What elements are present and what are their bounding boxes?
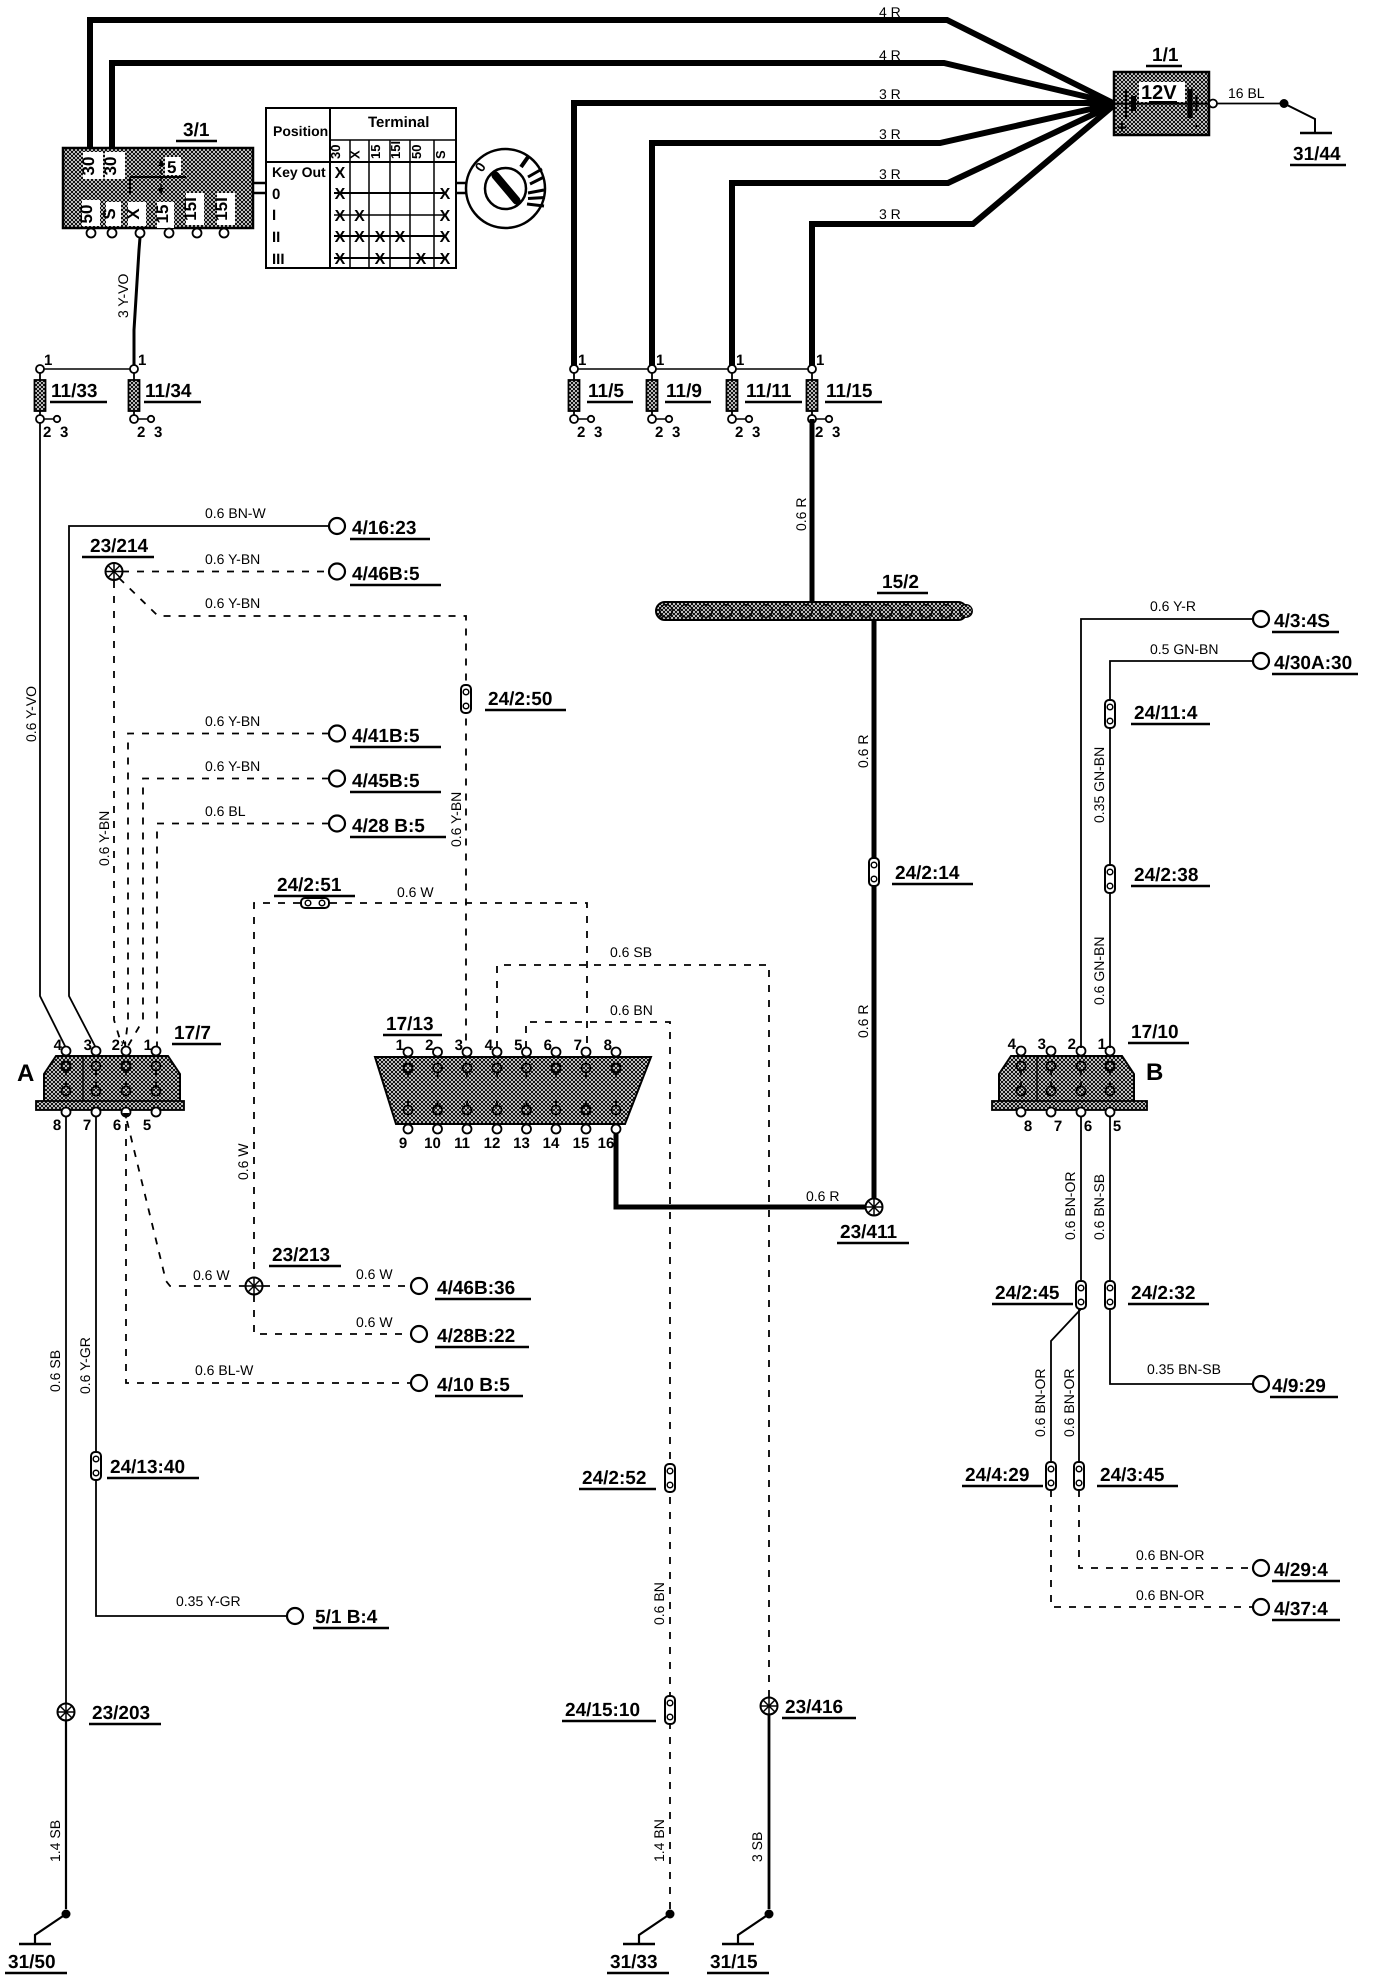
svg-text:4/3:4S: 4/3:4S (1274, 611, 1330, 632)
svg-text:23/416: 23/416 (785, 1697, 843, 1718)
svg-text:11/33: 11/33 (51, 381, 98, 402)
svg-text:0.6 Y-BN: 0.6 Y-BN (96, 811, 112, 866)
inline connector 24/2:32 (1105, 1281, 1209, 1309)
inline connector 24/13:40 (91, 1452, 199, 1480)
svg-text:24/2:51: 24/2:51 (277, 875, 342, 896)
svg-text:4/46B:36: 4/46B:36 (437, 1278, 515, 1299)
svg-text:11/34: 11/34 (145, 381, 192, 402)
svg-text:A: A (17, 1060, 34, 1087)
wire 0.6 R bus 15/2 down to splice 23/411 (855, 620, 874, 1207)
label 1/1 (1146, 45, 1182, 66)
svg-text:4/28B:22: 4/28B:22 (437, 1326, 515, 1347)
terminal 4/41B:5 (329, 726, 441, 748)
connector 17/7 A (17, 1037, 184, 1134)
svg-text:X: X (335, 165, 346, 182)
ignition key symbol (456, 149, 545, 228)
svg-text:0.6 Y-BN: 0.6 Y-BN (205, 551, 260, 567)
wire 0.6 Y-BN splice 23/214 to 4/46B:5 (122, 551, 329, 572)
svg-text:0.6 GN-BN: 0.6 GN-BN (1091, 937, 1107, 1005)
svg-text:10: 10 (424, 1135, 441, 1152)
svg-text:1: 1 (396, 1037, 404, 1054)
wire 0.6 SB 17/7 pin 8 to splice 23/203 (47, 1117, 66, 1703)
svg-text:5: 5 (514, 1037, 522, 1054)
svg-text:2: 2 (425, 1037, 433, 1054)
wire 0.6 W 24/2:51 to 17/13 pin 7 (330, 884, 587, 1048)
svg-text:Position: Position (273, 123, 328, 139)
wires 3/1 to position table (253, 182, 266, 185)
svg-text:3 R: 3 R (879, 166, 901, 182)
svg-text:24/2:52: 24/2:52 (582, 1468, 646, 1489)
svg-text:1.4 SB: 1.4 SB (47, 1820, 63, 1862)
svg-text:16: 16 (598, 1135, 615, 1152)
svg-text:X: X (335, 251, 346, 268)
battery 1/1 12V (1114, 72, 1209, 137)
svg-text:4: 4 (485, 1037, 494, 1054)
terminal 4/30A:30 (1253, 653, 1358, 674)
wire 0.6 BN 17/13 pin 5 to ground 31/33 (526, 1002, 670, 1909)
wire 1.4 SB splice 23/203 to ground 31/50 (47, 1721, 66, 1909)
terminal 4/37:4 (1253, 1599, 1340, 1620)
svg-text:6: 6 (1084, 1118, 1092, 1135)
label 15/2 (877, 572, 928, 593)
svg-text:0.35 GN-BN: 0.35 GN-BN (1091, 747, 1107, 823)
svg-text:0.6 SB: 0.6 SB (47, 1350, 63, 1392)
svg-text:4/16:23: 4/16:23 (352, 518, 416, 539)
svg-text:0.6 Y-VO: 0.6 Y-VO (23, 686, 39, 742)
svg-text:11/15: 11/15 (826, 381, 873, 402)
svg-text:12V: 12V (1141, 82, 1177, 104)
svg-text:4/10 B:5: 4/10 B:5 (437, 1375, 510, 1396)
label 17/10 (1128, 1022, 1189, 1043)
svg-text:0.6 BL-W: 0.6 BL-W (195, 1362, 254, 1378)
svg-text:0.35 Y-GR: 0.35 Y-GR (176, 1593, 241, 1609)
ignition position/terminal table (266, 108, 456, 268)
svg-text:4 R: 4 R (879, 4, 901, 20)
fuse 11/33 (35, 352, 108, 441)
svg-text:X: X (440, 208, 451, 225)
svg-text:0.6 W: 0.6 W (193, 1267, 230, 1283)
svg-text:0.6 SB: 0.6 SB (610, 944, 652, 960)
svg-text:3 R: 3 R (879, 86, 901, 102)
svg-text:S: S (100, 208, 119, 219)
svg-text:0.6 R: 0.6 R (806, 1188, 839, 1204)
svg-text:4/29:4: 4/29:4 (1274, 1560, 1328, 1581)
svg-text:11/11: 11/11 (746, 381, 792, 402)
connector 17/13 (375, 1037, 651, 1152)
svg-text:23/411: 23/411 (840, 1222, 897, 1243)
svg-text:4: 4 (54, 1037, 63, 1054)
wire GN-BN 17/10 pin 1 to 4/30A:30 (1091, 641, 1253, 1048)
label 17/13 (383, 1014, 442, 1035)
svg-text:15: 15 (153, 205, 172, 224)
svg-text:0.5 GN-BN: 0.5 GN-BN (1150, 641, 1218, 657)
svg-text:3 Y-VO: 3 Y-VO (115, 274, 131, 318)
svg-text:24/2:50: 24/2:50 (488, 689, 552, 710)
svg-text:5: 5 (1113, 1118, 1121, 1135)
svg-text:X: X (124, 208, 143, 220)
svg-text:16 BL: 16 BL (1228, 85, 1265, 101)
svg-text:11: 11 (454, 1135, 470, 1152)
svg-text:0.6 R: 0.6 R (855, 1005, 871, 1038)
svg-text:15: 15 (368, 145, 383, 159)
svg-text:X: X (395, 229, 406, 246)
svg-text:III: III (272, 251, 285, 268)
svg-text:8: 8 (604, 1037, 612, 1054)
svg-text:0.6 BN-OR: 0.6 BN-OR (1136, 1547, 1204, 1563)
svg-text:X: X (335, 208, 346, 225)
svg-text:0.6 R: 0.6 R (855, 735, 871, 768)
svg-text:11/5: 11/5 (588, 381, 624, 402)
wire 3R battery to fuse 11/5 (574, 86, 1113, 367)
wire 0.6 R fuse 11/15 to bus 15/2 (793, 419, 812, 602)
svg-text:15I: 15I (388, 141, 403, 159)
svg-text:24/15:10: 24/15:10 (565, 1700, 640, 1721)
connector 17/10 B (992, 1036, 1163, 1135)
terminal 4/46B:5 (329, 564, 441, 586)
wire Y-GR 17/7 pin 7 through 24/13:40 to 5/1 B:4 (77, 1117, 287, 1616)
label 17/7 (172, 1023, 221, 1044)
inline connector 24/2:51 (274, 875, 355, 908)
splice 23/203 (58, 1703, 162, 1724)
svg-text:4/9:29: 4/9:29 (1272, 1376, 1326, 1397)
svg-text:0.6 Y-BN: 0.6 Y-BN (448, 792, 464, 847)
wire 0.6 W splice 23/213 to 4/46B:36 (263, 1266, 411, 1286)
splice 23/213 (246, 1245, 342, 1295)
junction wedge at battery positive (1090, 94, 1114, 113)
svg-text:0.6 Y-BN: 0.6 Y-BN (205, 758, 260, 774)
svg-text:X: X (354, 229, 365, 246)
fuse 11/34 (129, 352, 202, 441)
wire 0.6 BN-OR 24/4:29 to 4/37:4 (1051, 1490, 1253, 1607)
wire 0.6 Y-BN 17/7 pin 2 to 4/41B:5 (125, 713, 329, 1046)
svg-text:X: X (416, 251, 427, 268)
ground 31/33 (607, 1910, 675, 1974)
svg-text:0.6 BN-SB: 0.6 BN-SB (1091, 1174, 1107, 1240)
svg-text:0.6 BN-OR: 0.6 BN-OR (1032, 1369, 1048, 1437)
svg-text:24/4:29: 24/4:29 (965, 1465, 1029, 1486)
wire 3 SB splice 23/416 to ground 31/15 (749, 1715, 769, 1909)
svg-text:30: 30 (79, 157, 98, 176)
wire 0.6 BL-W 17/7 pin 6 to 4/10 B:5 (126, 1124, 411, 1383)
terminal 4/29:4 (1253, 1560, 1340, 1581)
svg-text:13: 13 (513, 1135, 530, 1152)
svg-text:17/7: 17/7 (174, 1023, 211, 1044)
svg-text:0: 0 (272, 186, 280, 203)
svg-text:1: 1 (1098, 1036, 1106, 1053)
svg-text:Terminal: Terminal (368, 114, 429, 131)
svg-text:23/213: 23/213 (272, 1245, 330, 1266)
svg-text:24/2:38: 24/2:38 (1134, 865, 1198, 886)
svg-text:X: X (348, 150, 363, 159)
svg-text:3: 3 (84, 1037, 92, 1054)
wire 4R from 3/1 terminal 30 to battery (90, 4, 1113, 156)
svg-text:4/41B:5: 4/41B:5 (352, 726, 420, 747)
svg-text:24/2:45: 24/2:45 (995, 1283, 1060, 1304)
splice 23/411 (837, 1199, 909, 1244)
svg-text:4/28 B:5: 4/28 B:5 (352, 816, 425, 837)
svg-text:4/37:4: 4/37:4 (1274, 1599, 1328, 1620)
svg-text:0.35 BN-SB: 0.35 BN-SB (1147, 1361, 1221, 1377)
svg-text:S: S (433, 150, 448, 159)
svg-text:11/9: 11/9 (666, 381, 702, 402)
svg-text:15I: 15I (181, 197, 200, 221)
ground 31/44 (1280, 99, 1347, 165)
terminal 4/28 B:5 (329, 816, 446, 838)
svg-text:31/44: 31/44 (1293, 144, 1341, 165)
svg-text:0.6 Y-BN: 0.6 Y-BN (205, 595, 260, 611)
svg-text:4: 4 (1008, 1036, 1017, 1053)
svg-text:2: 2 (112, 1037, 120, 1054)
svg-text:0.6 W: 0.6 W (356, 1314, 393, 1330)
svg-text:31/15: 31/15 (710, 1952, 758, 1973)
inline connector 24/11:4 (1105, 700, 1210, 728)
svg-text:-: - (1195, 117, 1200, 134)
svg-text:0.6 BN-OR: 0.6 BN-OR (1062, 1172, 1078, 1240)
svg-text:4/46B:5: 4/46B:5 (352, 564, 420, 585)
svg-text:X: X (440, 229, 451, 246)
svg-text:30: 30 (101, 157, 120, 176)
wire 0.6 Y-BN 17/7 pin 2 to 4/45B:5 (128, 758, 329, 1046)
svg-text:24/11:4: 24/11:4 (1134, 703, 1198, 724)
wire 0.6 W splice 23/213 to 4/28B:22 (254, 1295, 411, 1334)
svg-text:+: + (1117, 118, 1127, 137)
svg-text:5: 5 (167, 158, 176, 177)
svg-text:X: X (354, 208, 365, 225)
terminal 5/1 B:4 (287, 1607, 389, 1628)
wire 0.6 R splice 23/411 to 17/13 pin 16 (616, 1129, 874, 1207)
terminal 4/16:23 (329, 518, 430, 539)
svg-text:24/13:40: 24/13:40 (110, 1457, 185, 1478)
fuse 11/11 (727, 352, 803, 441)
svg-text:I: I (272, 207, 276, 224)
ignition switch 3/1 (63, 148, 253, 238)
svg-text:15: 15 (573, 1135, 590, 1152)
svg-text:0.6 BN-OR: 0.6 BN-OR (1136, 1587, 1204, 1603)
wire 0.6 BL 17/7 pin 1 to 4/28 B:5 (157, 803, 329, 1048)
inline connector 24/2:52 (579, 1464, 675, 1492)
svg-text:24/2:14: 24/2:14 (895, 863, 960, 884)
svg-text:7: 7 (574, 1037, 582, 1054)
wire 0.6 W 17/7 pin 6 to splice 23/213 (127, 1121, 245, 1286)
svg-text:0.6 Y-R: 0.6 Y-R (1150, 598, 1196, 614)
terminal 4/45B:5 (329, 771, 441, 793)
terminal 4/28B:22 (411, 1326, 529, 1347)
svg-text:5: 5 (143, 1117, 151, 1134)
svg-text:0.6 BN: 0.6 BN (651, 1582, 667, 1625)
wire 0.6 BN-OR 24/2:45 to 24/3:45 (1061, 1309, 1079, 1462)
svg-text:0.6 W: 0.6 W (235, 1143, 251, 1180)
svg-text:6: 6 (113, 1117, 121, 1134)
wire 3 Y-VO from terminal X to fuse 11/34 (115, 238, 140, 370)
svg-text:30: 30 (328, 145, 343, 159)
wire 4R from 3/1 terminal 30 (second) to battery (112, 47, 1113, 156)
wire 0.6 BN-OR 24/3:45 to 4/29:4 (1079, 1490, 1253, 1568)
svg-text:B: B (1146, 1059, 1163, 1086)
wire 0.6 BN-OR 24/2:45 to 24/4:29 (1032, 1309, 1081, 1462)
svg-text:17/13: 17/13 (386, 1014, 434, 1035)
terminal 4/10 B:5 (411, 1375, 523, 1396)
svg-text:X: X (375, 251, 386, 268)
svg-text:8: 8 (1024, 1118, 1032, 1135)
svg-text:17/10: 17/10 (1131, 1022, 1179, 1043)
svg-text:4/45B:5: 4/45B:5 (352, 771, 420, 792)
wire 3R battery to fuse 11/11 (732, 105, 1113, 367)
svg-text:X: X (440, 186, 451, 203)
svg-text:0.6 W: 0.6 W (397, 884, 434, 900)
svg-text:3 R: 3 R (879, 126, 901, 142)
svg-text:9: 9 (399, 1135, 407, 1152)
svg-text:3 SB: 3 SB (749, 1832, 765, 1862)
svg-text:3 R: 3 R (879, 206, 901, 222)
svg-text:3: 3 (455, 1037, 463, 1054)
terminal 4/3:4S (1253, 611, 1339, 632)
svg-text:0.6 Y-GR: 0.6 Y-GR (77, 1337, 93, 1394)
inline connector 24/2:38 (1105, 865, 1210, 893)
svg-text:2: 2 (1068, 1036, 1076, 1053)
svg-text:0.6 R: 0.6 R (793, 498, 809, 531)
svg-text:12: 12 (484, 1135, 501, 1152)
wire 16 BL battery to ground 31/44 (1209, 85, 1284, 108)
wire 0.6 SB 17/13 pin 4 to splice 23/416 (497, 944, 769, 1697)
fuse 11/15 (807, 352, 883, 441)
svg-text:15/2: 15/2 (882, 572, 919, 593)
svg-text:31/50: 31/50 (8, 1952, 56, 1973)
ground 31/50 (5, 1910, 71, 1974)
svg-text:3/1: 3/1 (183, 120, 210, 141)
svg-text:5/1 B:4: 5/1 B:4 (315, 1607, 378, 1628)
wire 0.6 Y-VO fuse 11/33 to 17/7 pin 4 (23, 423, 66, 1048)
svg-text:0.6 BN-W: 0.6 BN-W (205, 505, 266, 521)
svg-text:4 R: 4 R (879, 47, 901, 63)
svg-text:X: X (375, 229, 386, 246)
svg-text:8: 8 (53, 1117, 61, 1134)
ground 31/15 (707, 1910, 774, 1974)
inline connector 24/15:10 (562, 1696, 675, 1724)
svg-text:23/203: 23/203 (92, 1703, 150, 1724)
terminal 4/9:29 (1253, 1376, 1338, 1397)
fuse 11/9 (647, 352, 712, 441)
bus bar 15/2 (656, 602, 972, 620)
svg-text:50: 50 (409, 145, 424, 159)
terminal 4/46B:36 (411, 1278, 531, 1299)
svg-text:0.6 Y-BN: 0.6 Y-BN (205, 713, 260, 729)
fuse 11/5 (569, 352, 634, 441)
wire 3R battery to fuse 11/15 (812, 106, 1113, 367)
svg-text:1/1: 1/1 (1152, 45, 1179, 66)
svg-text:0.6 W: 0.6 W (356, 1266, 393, 1282)
inline connector 24/2:50 (461, 685, 566, 713)
wire 0.6 BN-SB 17/10 pin 5 through 24/2:32 to 4/9:29 (1091, 1117, 1253, 1384)
inline connector 24/4:29 (962, 1462, 1056, 1490)
label 3/1 (176, 120, 217, 141)
wire 0.6 Y-BN splice 23/214 to 24/2:50 and 17/13 pin 3 (119, 578, 466, 1048)
svg-text:4/30A:30: 4/30A:30 (1274, 653, 1352, 674)
splice 23/416 (761, 1697, 857, 1718)
svg-text:II: II (272, 229, 280, 246)
wire 0.6 BN-OR 17/10 pin 6 to 24/2:45 (1062, 1117, 1081, 1282)
svg-text:X: X (335, 186, 346, 203)
svg-text:7: 7 (1054, 1118, 1062, 1135)
svg-text:24/3:45: 24/3:45 (1100, 1465, 1165, 1486)
svg-text:14: 14 (543, 1135, 560, 1152)
svg-text:6: 6 (544, 1037, 552, 1054)
svg-text:24/2:32: 24/2:32 (1131, 1283, 1195, 1304)
svg-text:23/214: 23/214 (90, 536, 149, 557)
svg-text:0.6 BN: 0.6 BN (610, 1002, 653, 1018)
wire 3R battery to fuse 11/9 (652, 104, 1113, 367)
svg-text:1.4 BN: 1.4 BN (651, 1819, 667, 1862)
wire 0.6 BN-W 17/7 pin 3 to 4/16:23 (69, 505, 329, 1048)
inline connector 24/2:14 (869, 858, 973, 886)
wire 0.6 W 24/2:51 to splice 23/213 (235, 903, 300, 1277)
splice 23/214 (82, 536, 154, 580)
wire fuse 11/33 pin1 to 11/34 pin1 (40, 366, 138, 373)
svg-text:X: X (335, 229, 346, 246)
svg-text:1: 1 (144, 1037, 152, 1054)
inline connector 24/2:45 (992, 1281, 1086, 1309)
wire 0.6 Y-R 17/10 pin 2 to 4/3:4S (1081, 598, 1253, 1048)
svg-text:0.6 BN-OR: 0.6 BN-OR (1061, 1369, 1077, 1437)
svg-text:7: 7 (83, 1117, 91, 1134)
svg-text:0.6 BL: 0.6 BL (205, 803, 246, 819)
svg-text:Key Out: Key Out (272, 164, 326, 180)
svg-text:X: X (440, 251, 451, 268)
wire linking fuses 11/5 11/9 11/11 11/15 pin1 (574, 368, 814, 370)
svg-text:31/33: 31/33 (610, 1952, 658, 1973)
svg-text:50: 50 (77, 205, 96, 224)
svg-text:3: 3 (1038, 1036, 1046, 1053)
wire 0.6 Y-BN splice 23/214 to 17/7 pin 2 (96, 581, 122, 1046)
inline connector 24/3:45 (1074, 1462, 1178, 1490)
svg-text:15I: 15I (212, 197, 231, 221)
